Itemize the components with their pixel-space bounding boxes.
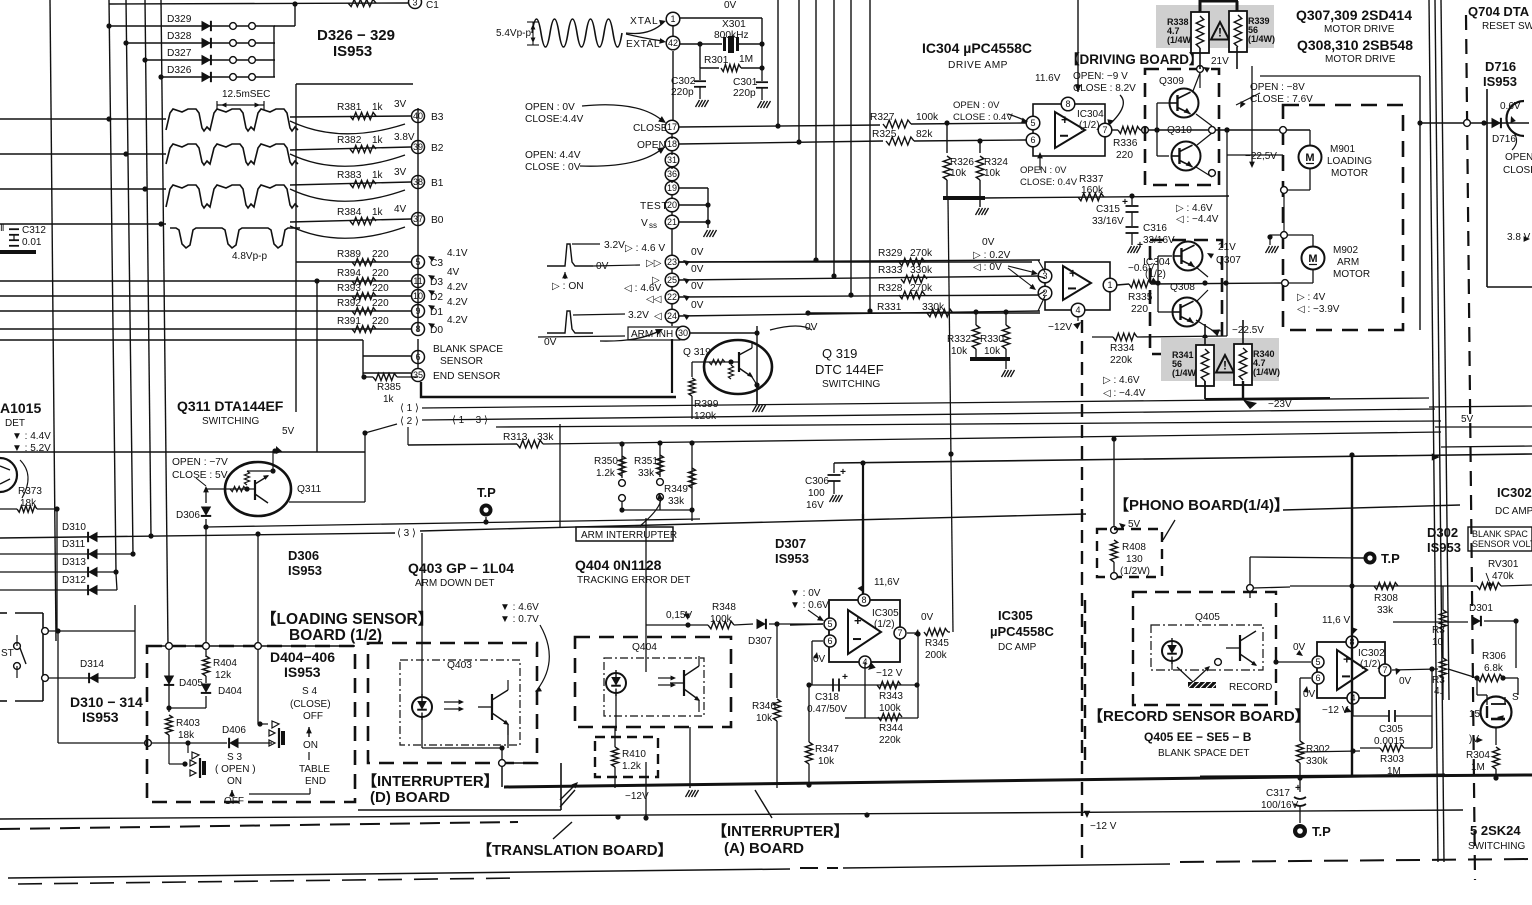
svg-text:(1/4W): (1/4W) — [1248, 34, 1275, 44]
svg-text:Q307: Q307 — [1216, 255, 1241, 266]
svg-text:ON: ON — [227, 776, 242, 787]
svg-text:TEST: TEST — [640, 201, 668, 212]
svg-text:D405: D405 — [179, 678, 203, 689]
svg-text:Q704 DTA: Q704 DTA — [1468, 4, 1530, 19]
svg-text:−22,5V: −22,5V — [1245, 151, 1277, 162]
svg-text:10: 10 — [1432, 637, 1444, 648]
svg-text:T.P: T.P — [1312, 824, 1331, 839]
svg-text:B2: B2 — [431, 143, 444, 154]
svg-text:D716: D716 — [1485, 59, 1516, 74]
svg-text:R332: R332 — [947, 334, 971, 345]
svg-text:4V: 4V — [447, 267, 460, 278]
svg-text:D406: D406 — [222, 725, 246, 736]
svg-text:0V: 0V — [921, 612, 934, 623]
svg-text:Q311: Q311 — [297, 484, 321, 495]
svg-text:END SENSOR: END SENSOR — [433, 371, 500, 382]
svg-text:19: 19 — [667, 183, 677, 193]
svg-text:ss: ss — [649, 221, 657, 230]
svg-text:220: 220 — [372, 268, 389, 279]
svg-text:+: + — [1343, 652, 1351, 667]
svg-text:SENSOR VOLT: SENSOR VOLT — [1472, 539, 1532, 549]
svg-text:Q308: Q308 — [1170, 282, 1195, 293]
svg-text:3.2V: 3.2V — [604, 240, 625, 251]
svg-text:6: 6 — [1030, 135, 1035, 145]
svg-text:33k: 33k — [638, 468, 655, 479]
svg-text:R410: R410 — [622, 749, 646, 760]
svg-text:M902: M902 — [1333, 245, 1358, 256]
svg-text:22: 22 — [667, 292, 677, 302]
svg-text:21V: 21V — [1211, 56, 1229, 67]
svg-text:17: 17 — [667, 122, 677, 132]
svg-text:R334: R334 — [1110, 343, 1135, 354]
svg-text:CLOSE : 7.6V: CLOSE : 7.6V — [1250, 94, 1313, 105]
svg-text:−23V: −23V — [1268, 399, 1292, 410]
svg-text:5: 5 — [1315, 657, 1320, 667]
svg-text:S 4: S 4 — [302, 686, 317, 697]
svg-text:A1015: A1015 — [0, 400, 41, 416]
svg-text:10k: 10k — [984, 168, 1001, 179]
svg-text:ON: ON — [303, 740, 318, 751]
svg-text:R324: R324 — [984, 157, 1008, 168]
svg-text:1k: 1k — [372, 102, 384, 113]
svg-text:ARM DOWN DET: ARM DOWN DET — [415, 578, 494, 589]
svg-text:DC AMP: DC AMP — [998, 642, 1037, 653]
svg-text:R408: R408 — [1122, 542, 1146, 553]
svg-text:5: 5 — [827, 619, 832, 629]
svg-text:【PHONO BOARD(1/4)】: 【PHONO BOARD(1/4)】 — [1114, 496, 1289, 514]
svg-text:(A) BOARD: (A) BOARD — [724, 840, 804, 857]
svg-text:3.8 V: 3.8 V — [1507, 232, 1531, 243]
svg-text:◁ : 4.6V: ◁ : 4.6V — [624, 283, 661, 294]
svg-text:MOTOR DRIVE: MOTOR DRIVE — [1325, 54, 1396, 65]
svg-text:100k: 100k — [916, 112, 939, 123]
svg-text:▷ : 0.2V: ▷ : 0.2V — [973, 250, 1010, 261]
svg-text:OPEN : −7V: OPEN : −7V — [172, 457, 228, 468]
svg-text:D310: D310 — [62, 522, 86, 533]
svg-text:R330: R330 — [980, 334, 1004, 345]
svg-text:V: V — [641, 218, 648, 229]
svg-text:0V: 0V — [724, 0, 737, 11]
svg-text:−12 V: −12 V — [1090, 821, 1117, 832]
svg-text:33k: 33k — [1377, 605, 1394, 616]
svg-text:4.: 4. — [1434, 686, 1442, 697]
svg-text:Q311 DTA144EF: Q311 DTA144EF — [177, 398, 284, 414]
svg-text:11,6V: 11,6V — [874, 577, 900, 588]
svg-text:▼ : 4.6V: ▼ : 4.6V — [500, 602, 539, 613]
svg-text:5: 5 — [1030, 118, 1035, 128]
svg-text:D313: D313 — [62, 557, 86, 568]
svg-text:3V: 3V — [394, 167, 407, 178]
svg-text:!: ! — [1223, 359, 1227, 373]
svg-text:10k: 10k — [818, 756, 835, 767]
svg-text:D404−406: D404−406 — [270, 649, 335, 665]
svg-text:BOARD (1/2): BOARD (1/2) — [289, 627, 382, 644]
svg-text:+: + — [1295, 783, 1301, 794]
svg-text:【LOADING SENSOR】: 【LOADING SENSOR】 — [261, 610, 433, 628]
svg-text:470k: 470k — [1492, 571, 1515, 582]
svg-text:R313: R313 — [503, 432, 528, 443]
svg-text:0V: 0V — [691, 281, 704, 292]
svg-text:IC305: IC305 — [998, 608, 1033, 623]
svg-text:100k: 100k — [879, 703, 902, 714]
svg-text:1M: 1M — [1471, 762, 1485, 773]
svg-text:1.2k: 1.2k — [622, 761, 642, 772]
svg-text:OPEN: 4.4V: OPEN: 4.4V — [525, 150, 581, 161]
svg-text:R328: R328 — [878, 283, 903, 294]
svg-text:OPEN: OPEN — [1505, 152, 1532, 163]
svg-text:12k: 12k — [215, 670, 232, 681]
svg-text:R331: R331 — [877, 302, 902, 313]
svg-text:R385: R385 — [377, 382, 401, 393]
svg-text:0V: 0V — [1399, 676, 1412, 687]
svg-text:42: 42 — [668, 38, 678, 48]
svg-text:+: + — [840, 467, 846, 478]
svg-text:1: 1 — [670, 14, 675, 24]
svg-text:8: 8 — [861, 595, 866, 605]
svg-text:R351: R351 — [634, 456, 658, 467]
svg-text:◁ : −3.9V: ◁ : −3.9V — [1297, 304, 1340, 315]
svg-text:R389: R389 — [337, 249, 361, 260]
svg-text:+: + — [1069, 266, 1077, 281]
svg-text:1k: 1k — [372, 135, 384, 146]
svg-text:15: 15 — [1469, 709, 1481, 720]
svg-text:0V: 0V — [691, 300, 704, 311]
svg-text:▼ : 4.4V: ▼ : 4.4V — [12, 431, 51, 442]
svg-text:Q405: Q405 — [1195, 612, 1220, 623]
svg-text:D327: D327 — [167, 48, 192, 59]
svg-text:T.P: T.P — [477, 485, 496, 500]
svg-text:5.4Vp-p: 5.4Vp-p — [496, 28, 531, 39]
svg-text:−12V: −12V — [1048, 322, 1072, 333]
svg-text:R336: R336 — [1113, 138, 1138, 149]
svg-text:31: 31 — [667, 155, 677, 165]
svg-text:−12 V: −12 V — [1322, 705, 1349, 716]
svg-text:⟨ 3 ⟩: ⟨ 3 ⟩ — [397, 528, 416, 539]
svg-text:220: 220 — [372, 316, 389, 327]
svg-text:330k: 330k — [1306, 756, 1329, 767]
svg-text:ARM: ARM — [1337, 257, 1359, 268]
svg-text:Q307,309 2SD414: Q307,309 2SD414 — [1296, 7, 1412, 23]
svg-text:(1/2): (1/2) — [1079, 120, 1100, 131]
svg-text:R381: R381 — [337, 102, 362, 113]
svg-text:▷ : 4V: ▷ : 4V — [1297, 292, 1326, 303]
svg-text:Q310: Q310 — [1167, 125, 1192, 136]
svg-text:(1/4W): (1/4W) — [1172, 368, 1199, 378]
svg-text:100: 100 — [808, 488, 825, 499]
svg-text:▷ : 4.6V: ▷ : 4.6V — [1103, 375, 1140, 386]
svg-text:MOTOR DRIVE: MOTOR DRIVE — [1324, 24, 1395, 35]
svg-text:CLOSE: 0.4V: CLOSE: 0.4V — [1020, 177, 1078, 188]
svg-text:(1/4W): (1/4W) — [1167, 35, 1194, 45]
svg-text:CLOSE:4.4V: CLOSE:4.4V — [525, 114, 584, 125]
svg-text:ST: ST — [1, 648, 14, 659]
svg-text:33/16V: 33/16V — [1092, 216, 1124, 227]
svg-text:CLOSE: CLOSE — [633, 123, 668, 134]
svg-text:R337: R337 — [1079, 174, 1104, 185]
svg-text:B1: B1 — [431, 178, 444, 189]
svg-text:D301: D301 — [1469, 603, 1493, 614]
svg-text:+: + — [1061, 112, 1069, 127]
svg-text:IS953: IS953 — [333, 43, 372, 60]
svg-text:END: END — [305, 776, 326, 787]
svg-text:100/16V: 100/16V — [1261, 800, 1299, 811]
svg-text:B0: B0 — [431, 215, 444, 226]
svg-text:220k: 220k — [1110, 355, 1133, 366]
svg-text:CLOSE : 8.2V: CLOSE : 8.2V — [1073, 83, 1136, 94]
svg-text:0V: 0V — [596, 261, 609, 272]
svg-text:R326: R326 — [950, 157, 974, 168]
svg-text:【RECORD SENSOR BOARD】: 【RECORD SENSOR BOARD】 — [1088, 707, 1310, 725]
svg-text:D314: D314 — [80, 659, 104, 670]
svg-text:0.01: 0.01 — [22, 237, 42, 248]
svg-text:SWITCHING: SWITCHING — [202, 416, 259, 427]
svg-text:220: 220 — [372, 283, 389, 294]
svg-text:18k: 18k — [178, 730, 195, 741]
svg-text:R344: R344 — [879, 723, 903, 734]
svg-text:R373: R373 — [18, 486, 42, 497]
svg-text:6: 6 — [827, 636, 832, 646]
svg-text:1M: 1M — [739, 54, 753, 65]
svg-text:16V: 16V — [806, 500, 824, 511]
svg-text:D306: D306 — [288, 548, 319, 563]
svg-text:10k: 10k — [756, 713, 773, 724]
svg-text:R327: R327 — [870, 112, 895, 123]
svg-text:BLANK SPACE DET: BLANK SPACE DET — [1158, 748, 1250, 759]
svg-text:1M: 1M — [1387, 766, 1401, 777]
svg-text:330k: 330k — [910, 265, 933, 276]
svg-text:◁ : 0V: ◁ : 0V — [973, 262, 1002, 273]
svg-text:S: S — [1512, 692, 1519, 703]
svg-text:270k: 270k — [910, 248, 933, 259]
svg-text:ARM INH: ARM INH — [631, 329, 673, 340]
svg-text:4.2V: 4.2V — [447, 297, 468, 308]
svg-text:LOADING: LOADING — [1327, 156, 1372, 167]
svg-text:OPEN : 0V: OPEN : 0V — [525, 102, 575, 113]
svg-text:⟨ 2 ⟩: ⟨ 2 ⟩ — [400, 416, 419, 427]
svg-text:【TRANSLATION BOARD】: 【TRANSLATION BOARD】 — [477, 841, 673, 859]
svg-text:【INTERRUPTER】: 【INTERRUPTER】 — [712, 822, 849, 840]
svg-text:⟨ 1 ⟩: ⟨ 1 ⟩ — [400, 403, 419, 414]
svg-text:Q309: Q309 — [1159, 76, 1184, 87]
svg-text:R382: R382 — [337, 135, 362, 146]
svg-text:220: 220 — [1116, 150, 1133, 161]
svg-text:TRACKING ERROR DET: TRACKING ERROR DET — [577, 575, 690, 586]
svg-text:!: ! — [1218, 26, 1222, 40]
svg-text:RECORD: RECORD — [1229, 682, 1272, 693]
svg-text:T.P: T.P — [1381, 551, 1400, 566]
svg-text:10k: 10k — [950, 168, 967, 179]
svg-text:( OPEN ): ( OPEN ) — [215, 764, 256, 775]
svg-text:6: 6 — [1315, 673, 1320, 683]
svg-text:4.1V: 4.1V — [447, 248, 468, 259]
svg-text:R347: R347 — [815, 744, 839, 755]
svg-text:C306: C306 — [805, 476, 829, 487]
svg-text:3.2V: 3.2V — [628, 310, 649, 321]
svg-text:OPEN : 0V: OPEN : 0V — [1020, 165, 1067, 176]
svg-text:18: 18 — [667, 139, 677, 149]
svg-text:7: 7 — [897, 628, 902, 638]
svg-text:220: 220 — [372, 298, 389, 309]
svg-text:R345: R345 — [925, 638, 949, 649]
svg-text:3V: 3V — [394, 99, 407, 110]
svg-text:Q 319: Q 319 — [683, 347, 711, 358]
svg-text:33k: 33k — [668, 496, 685, 507]
svg-text:M: M — [1305, 152, 1314, 164]
svg-text:(D) BOARD: (D) BOARD — [370, 789, 450, 806]
svg-text:C312: C312 — [22, 225, 46, 236]
svg-text:IS953: IS953 — [288, 563, 322, 578]
svg-text:+: + — [1122, 197, 1128, 208]
svg-text:Q403: Q403 — [447, 660, 472, 671]
svg-text:IC302: IC302 — [1497, 485, 1532, 500]
svg-text:OFF: OFF — [224, 796, 244, 807]
svg-text:R304: R304 — [1466, 750, 1490, 761]
svg-text:R383: R383 — [337, 170, 362, 181]
svg-text:10k: 10k — [951, 346, 968, 357]
svg-text:C1: C1 — [426, 0, 439, 11]
svg-text:+: + — [854, 613, 862, 628]
svg-text:1k: 1k — [372, 170, 384, 181]
svg-text:D328: D328 — [167, 31, 192, 42]
svg-text:21: 21 — [667, 217, 677, 227]
svg-text:▼ : 0.7V: ▼ : 0.7V — [500, 614, 539, 625]
svg-text:(1/2W): (1/2W) — [1120, 566, 1150, 577]
svg-text:▷▷: ▷▷ — [646, 258, 662, 269]
svg-text:OPEN: −9 V: OPEN: −9 V — [1073, 71, 1128, 82]
svg-text:R391: R391 — [337, 316, 361, 327]
svg-text:IS953: IS953 — [284, 664, 321, 680]
svg-text:SENSOR: SENSOR — [440, 356, 483, 367]
svg-text:IS953: IS953 — [82, 709, 119, 725]
svg-text:(1/4W): (1/4W) — [1253, 367, 1280, 377]
svg-text:▷ : 4.6V: ▷ : 4.6V — [1176, 203, 1213, 214]
svg-text:DTC 144EF: DTC 144EF — [815, 362, 884, 377]
svg-text:M: M — [1308, 253, 1317, 265]
svg-text:25: 25 — [667, 275, 677, 285]
svg-text:220p: 220p — [733, 88, 756, 99]
svg-text:Q403 GP − 1L04: Q403 GP − 1L04 — [408, 560, 514, 576]
svg-text:0.47/50V: 0.47/50V — [807, 704, 847, 715]
svg-text:R303: R303 — [1380, 754, 1404, 765]
svg-text:C317: C317 — [1266, 788, 1290, 799]
svg-text:Q308,310 2SB548: Q308,310 2SB548 — [1297, 37, 1413, 53]
svg-text:D326: D326 — [167, 65, 192, 76]
svg-text:20: 20 — [667, 200, 677, 210]
svg-text:(1/2): (1/2) — [1360, 659, 1381, 670]
svg-text:CLOSE: CLOSE — [1503, 165, 1532, 176]
svg-text:MOTOR: MOTOR — [1333, 269, 1370, 280]
svg-text:DET: DET — [5, 418, 25, 429]
svg-text:XTAL: XTAL — [630, 16, 659, 27]
svg-text:R346: R346 — [752, 701, 776, 712]
svg-text:◁ : −4.4V: ◁ : −4.4V — [1176, 214, 1219, 225]
svg-text:▼ : 0V: ▼ : 0V — [790, 588, 821, 599]
svg-text:RESET SW: RESET SW — [1482, 21, 1532, 32]
svg-text:36: 36 — [667, 169, 677, 179]
svg-text:RV301: RV301 — [1488, 559, 1519, 570]
svg-text:0V: 0V — [982, 237, 995, 248]
svg-text:R404: R404 — [213, 658, 237, 669]
svg-text:4: 4 — [1075, 305, 1080, 315]
svg-text:130: 130 — [1126, 554, 1143, 565]
svg-text:⟨ 1 − 3 ⟩: ⟨ 1 − 3 ⟩ — [452, 415, 488, 426]
svg-text:◁◁: ◁◁ — [646, 294, 662, 305]
svg-text:D312: D312 — [62, 575, 86, 586]
svg-text:IS953: IS953 — [1483, 74, 1517, 89]
svg-text:◁: ◁ — [654, 311, 662, 322]
svg-text:S 3: S 3 — [227, 752, 242, 763]
svg-text:3.8V: 3.8V — [394, 132, 415, 143]
svg-text:35: 35 — [413, 370, 423, 380]
svg-text:160k: 160k — [1081, 185, 1104, 196]
svg-text:0V: 0V — [544, 337, 557, 348]
svg-text:220: 220 — [372, 249, 389, 260]
svg-text:−22.5V: −22.5V — [1232, 325, 1264, 336]
svg-text:EXTAL: EXTAL — [626, 39, 660, 50]
svg-text:R333: R333 — [878, 265, 903, 276]
svg-text:C316: C316 — [1143, 223, 1167, 234]
svg-text:IC304 µPC4558C: IC304 µPC4558C — [922, 40, 1032, 56]
svg-text:200k: 200k — [925, 650, 948, 661]
svg-text:▷ : ON: ▷ : ON — [552, 281, 584, 292]
svg-text:IC305: IC305 — [872, 608, 899, 619]
svg-text:1k: 1k — [372, 207, 384, 218]
svg-text:D302: D302 — [1427, 525, 1458, 540]
svg-text:▼ : 0.6V: ▼ : 0.6V — [790, 600, 829, 611]
svg-text:D404: D404 — [218, 686, 242, 697]
svg-text:ARM INTERRUPTER: ARM INTERRUPTER — [581, 530, 677, 541]
svg-text:CLOSE : 0.4V: CLOSE : 0.4V — [953, 112, 1013, 123]
svg-text:D311: D311 — [62, 539, 86, 550]
svg-text:【DRIVING BOARD】: 【DRIVING BOARD】 — [1066, 52, 1203, 67]
svg-text:0V: 0V — [691, 247, 704, 258]
svg-text:D310 − 314: D310 − 314 — [70, 694, 143, 710]
svg-text:X301: X301 — [722, 19, 746, 30]
svg-text:BLANK SPAC: BLANK SPAC — [1472, 529, 1528, 539]
svg-text:SWITCHING: SWITCHING — [822, 379, 880, 390]
svg-text:Q404: Q404 — [632, 642, 657, 653]
svg-text:R349: R349 — [664, 484, 688, 495]
svg-text:R329: R329 — [878, 248, 903, 259]
svg-text:CLOSE : 5V: CLOSE : 5V — [172, 470, 228, 481]
svg-text:◁ : −4.4V: ◁ : −4.4V — [1103, 388, 1146, 399]
svg-text:7: 7 — [1382, 665, 1387, 675]
svg-text:B3: B3 — [431, 112, 444, 123]
svg-text:IS953: IS953 — [1427, 540, 1461, 555]
svg-text:R392: R392 — [337, 298, 361, 309]
svg-text:▷ : 4.6 V: ▷ : 4.6 V — [625, 243, 665, 254]
svg-text:4.8Vp-p: 4.8Vp-p — [232, 251, 267, 262]
svg-text:R394: R394 — [337, 268, 361, 279]
svg-text:R403: R403 — [176, 718, 200, 729]
svg-text:11,6 V: 11,6 V — [1322, 615, 1350, 626]
svg-text:30: 30 — [678, 328, 688, 338]
svg-text:24: 24 — [667, 311, 677, 321]
svg-text:Ⅱ: Ⅱ — [0, 223, 4, 233]
svg-text:5V: 5V — [282, 426, 295, 437]
svg-text:R343: R343 — [879, 691, 903, 702]
svg-text:10k: 10k — [984, 346, 1001, 357]
svg-text:82k: 82k — [916, 129, 933, 140]
svg-text:OPEN : 0V: OPEN : 0V — [953, 100, 1000, 111]
svg-text:4.2V: 4.2V — [447, 282, 468, 293]
svg-text:1: 1 — [1107, 280, 1112, 290]
svg-text:BLANK SPACE: BLANK SPACE — [433, 344, 503, 355]
svg-text:D326 − 329: D326 − 329 — [317, 27, 395, 44]
svg-text:DC AMP: DC AMP — [1495, 506, 1532, 517]
svg-text:MOTOR: MOTOR — [1331, 168, 1368, 179]
svg-text:3: 3 — [412, 0, 417, 7]
